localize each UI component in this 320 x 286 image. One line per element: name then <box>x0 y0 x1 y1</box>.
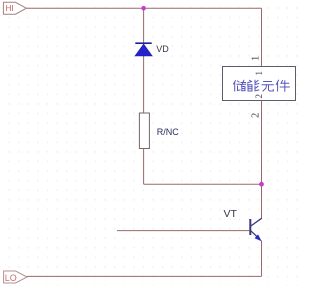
svg-text:R/NC: R/NC <box>157 127 179 137</box>
svg-text:HI: HI <box>6 4 14 13</box>
svg-text:VD: VD <box>156 44 169 54</box>
svg-text:2: 2 <box>251 113 262 118</box>
svg-text:1: 1 <box>254 71 264 76</box>
svg-text:VT: VT <box>224 208 238 220</box>
svg-text:1: 1 <box>251 56 262 61</box>
svg-text:LO: LO <box>5 273 17 283</box>
svg-text:2: 2 <box>254 94 264 99</box>
